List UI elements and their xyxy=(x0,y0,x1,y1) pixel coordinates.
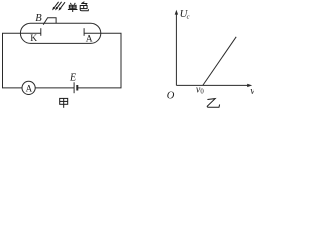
wire left branch (K lead to ammeter) xyxy=(3,33,41,88)
battery E short plate xyxy=(76,85,78,91)
Uc versus nu line xyxy=(203,37,236,86)
svg-text:c: c xyxy=(187,13,190,20)
quartz window B bump xyxy=(43,18,56,25)
svg-text:A: A xyxy=(26,83,33,93)
y-axis Uc xyxy=(175,10,178,86)
phototube envelope xyxy=(20,23,100,43)
label 色 (chromatic) drawn strokes xyxy=(80,2,88,11)
label 单 (mono) drawn strokes xyxy=(68,3,78,12)
x-axis nu xyxy=(176,84,252,87)
light ray 2 xyxy=(55,2,62,11)
electrode A plate xyxy=(83,28,85,36)
wire ammeter-to-battery segment xyxy=(35,87,74,89)
svg-text:A: A xyxy=(86,35,93,45)
wire right branch (A lead to battery) xyxy=(77,33,121,88)
svg-text:ν: ν xyxy=(250,86,254,97)
svg-text:O: O xyxy=(167,90,175,101)
svg-text:K: K xyxy=(30,34,37,44)
svg-text:B: B xyxy=(35,13,42,24)
light ray 1 xyxy=(52,2,59,11)
electrode K plate xyxy=(40,28,42,36)
svg-text:0: 0 xyxy=(200,89,204,96)
svg-text:E: E xyxy=(69,72,76,83)
light ray 3 xyxy=(59,2,66,11)
label 甲 drawn strokes xyxy=(60,98,68,107)
battery E long plate xyxy=(73,82,75,93)
label 乙 drawn strokes xyxy=(207,99,219,108)
ammeter A body xyxy=(22,81,35,94)
